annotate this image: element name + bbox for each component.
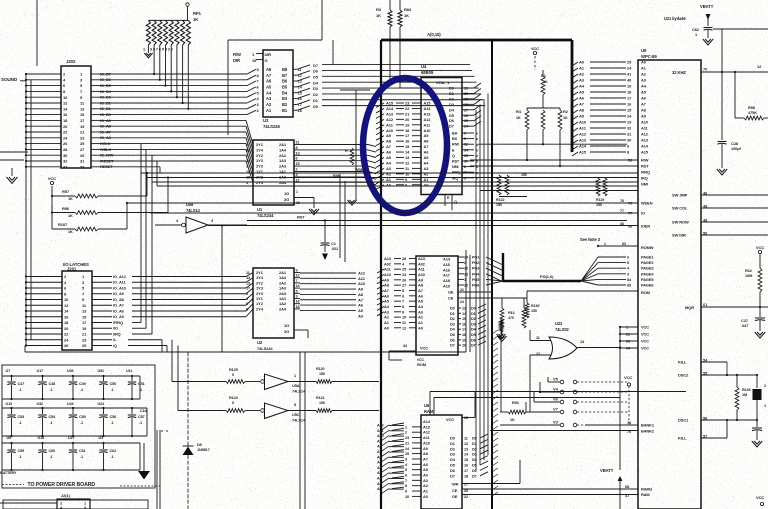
wire mid horizontal y352	[25, 351, 466, 353]
wire IO data bus rows J202 to U3	[99, 73, 247, 75]
cpu U4 68B09	[421, 78, 462, 195]
resistor R118 150 pullup	[596, 178, 600, 196]
resistor R122 150 pullup	[505, 175, 509, 195]
wire D bus verticals to ROM/RAM	[475, 110, 477, 470]
wire RW RST rows to U9	[470, 159, 638, 161]
capacitor row1 rails	[2, 375, 140, 377]
ground C28	[717, 169, 727, 175]
wire top left vertical	[36, 0, 38, 66]
capacitor C28 100pf	[718, 141, 727, 143]
resistor R22 10M	[759, 254, 761, 268]
capacitor C27 .047	[759, 307, 761, 317]
ground top left edge	[11, 168, 13, 176]
wire RP1 drops to data bus	[153, 45, 155, 74]
wire thick A bus fan to U9	[571, 40, 574, 152]
wire BANK rows	[585, 424, 638, 426]
wire 244 outputs to cpu fan	[300, 144, 368, 146]
wire jumper common	[548, 424, 560, 426]
diode D8 1N5817	[187, 352, 189, 446]
capacitor row3 rails	[2, 442, 140, 444]
rom U17 game rom	[416, 256, 458, 355]
wire J201 L Q drop	[171, 340, 173, 382]
ground C62	[703, 39, 713, 45]
wire cpu R/W to U9	[478, 143, 627, 145]
resistor R84 1K	[399, 0, 401, 10]
buffer U1 74LS244	[253, 140, 294, 205]
wire frame above RAM	[430, 391, 686, 393]
asic U9 WPC-89	[638, 60, 701, 509]
resistor R119 150 pullup	[603, 178, 607, 196]
node VCC R1 cluster	[533, 51, 536, 54]
ground pulldown	[499, 320, 503, 332]
resistor R126 1M	[736, 375, 738, 387]
capacitor crystal load	[756, 420, 758, 427]
wire IOEN branch down	[221, 226, 223, 353]
resistor pulldown left of gate	[500, 318, 502, 412]
buffer U2 74LS244	[253, 268, 294, 338]
wire J201 interrupt rows	[132, 322, 141, 324]
wire PG thick bus	[502, 253, 504, 281]
wire ROM outer label fan	[377, 269, 384, 273]
inverter U5C 74LS14	[261, 409, 265, 413]
wire J201 addr rows to U2	[132, 276, 246, 278]
box left of cpu	[355, 90, 357, 200]
resistor R132 470	[522, 308, 526, 328]
connector J202	[61, 66, 91, 168]
wire WDEN IO IOEN rows	[127, 202, 638, 204]
ground left of cpu	[348, 200, 357, 205]
wire left bus verticals J202	[25, 74, 27, 345]
wire bottom verticals	[299, 352, 301, 509]
wire FIRQ IRQ long rows	[141, 172, 638, 174]
capacitor C1 .022	[324, 221, 326, 243]
ground U1 enables	[309, 209, 319, 215]
resistor R123 150 pullup	[497, 175, 501, 195]
node VCC R22	[758, 250, 761, 253]
capacitor row2 rails	[2, 407, 147, 409]
capacitor C62	[704, 27, 713, 29]
highlight ellipse annotation	[363, 78, 447, 213]
wire IO addr rows J202 to U1	[99, 119, 246, 121]
wire C28 branch	[721, 72, 723, 140]
resistor R3 1K	[389, 0, 391, 10]
ground RP1 pin1	[147, 45, 149, 53]
wire extra pull lines	[480, 190, 638, 192]
wire verticals below 244 fan	[339, 174, 341, 258]
wire U9 VCC pins	[620, 326, 638, 328]
wire crystal lines to U4	[389, 27, 391, 82]
wire hatch on D bus vertical	[492, 330, 498, 334]
wire bottom left verticals	[156, 430, 158, 509]
wire A bus thick top	[381, 39, 572, 42]
ground C27	[755, 332, 765, 338]
ground R131	[497, 336, 506, 341]
ground crystal cap	[752, 441, 762, 447]
buffer U3 74LS245	[263, 50, 293, 117]
wire D bus vertical	[491, 40, 493, 509]
wire top right corner	[713, 28, 768, 30]
wire R/W box to U3	[321, 0, 323, 40]
resistor R130 150	[526, 291, 528, 303]
resistor R87	[350, 148, 354, 165]
ground cap bank	[143, 443, 145, 471]
wire U1 enable to ground	[294, 197, 314, 199]
wire KILL DSC network	[701, 361, 727, 363]
wire power section frame	[2, 365, 155, 488]
inverter U5A 74LS14	[261, 380, 265, 384]
wire U3 outputs to D bus	[297, 65, 310, 70]
wire A bus vertical left	[380, 40, 382, 509]
wire E Q below cpu	[444, 195, 446, 207]
crystal Y1	[756, 375, 758, 388]
resistor R131 470 pulldown	[500, 308, 504, 328]
resistor R mid	[541, 110, 545, 130]
resistor pack RP1 1K	[186, 3, 189, 6]
wire U2 outputs to ROM fan	[300, 272, 356, 274]
node VCC pullup rail	[50, 181, 53, 184]
wire RAMU RAM rows	[462, 488, 638, 490]
wire left edge stubs	[0, 151, 28, 153]
